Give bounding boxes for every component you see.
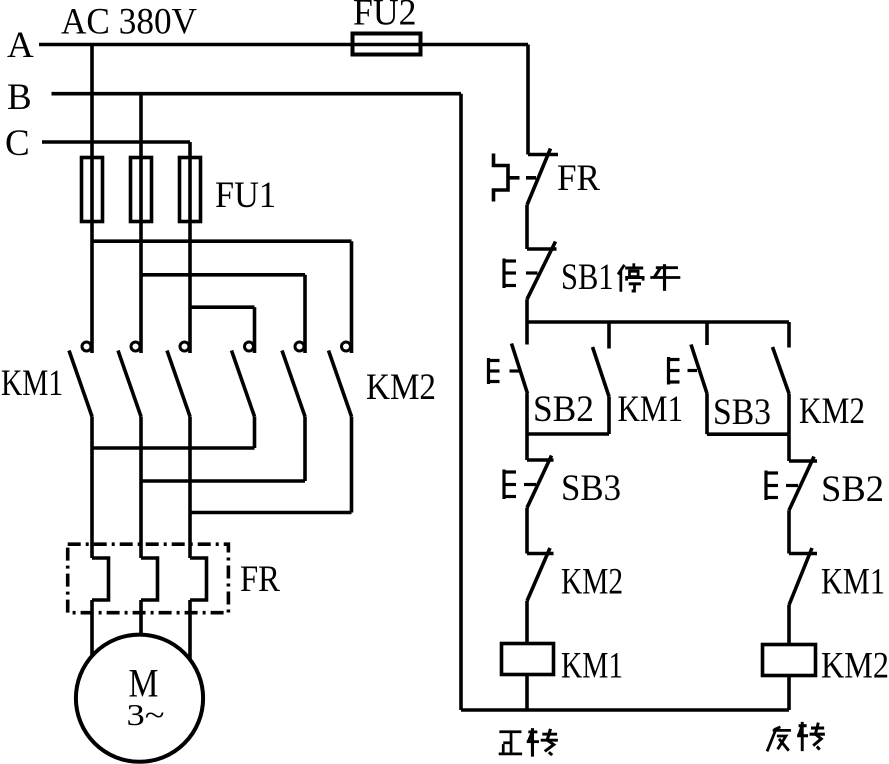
svg-text:A: A (7, 25, 34, 66)
wire: crossover bar C to KM2 left column (190, 305, 255, 309)
wire: below contact 2 (139, 417, 143, 559)
fuse FU1 element 1 (82, 158, 103, 222)
contactor KM1 main contact 1 (69, 342, 92, 417)
wire: control circuit left rail from phase B (459, 94, 463, 710)
svg-text:KM1: KM1 (618, 389, 684, 430)
contactor KM1 main contact 2 (118, 342, 141, 417)
pushbutton SB2 normally-closed contact (right branch) (789, 457, 817, 511)
pushbutton SB3 actuator E (669, 357, 698, 385)
thermal relay FR heater 1 (92, 558, 109, 600)
thermal relay FR heater 2 (141, 558, 158, 600)
pushbutton SB1 actuator E (504, 259, 538, 289)
wire: SB3 to KM2 interlock (525, 508, 529, 554)
svg-text:KM1: KM1 (821, 562, 885, 603)
svg-text:FR: FR (557, 158, 600, 199)
wire: below contact 5 (303, 417, 307, 482)
svg-text:KM1: KM1 (561, 646, 623, 687)
wire: lower crossover bar phase A (92, 446, 255, 450)
wire: heater 1 to motor (90, 600, 94, 656)
svg-text:SB3: SB3 (561, 468, 621, 509)
svg-text:KM2: KM2 (821, 646, 889, 687)
svg-text:FR: FR (240, 559, 280, 600)
svg-text:C: C (5, 123, 30, 164)
wire: KM2 interlock to KM1 coil (525, 601, 529, 644)
contact KM2 auxiliary NO (self-hold) (773, 322, 790, 434)
thermal relay FR heater 3 (190, 558, 207, 600)
contactor KM2 main contact 6 (329, 342, 352, 417)
fuse FU1 element 2 (131, 158, 152, 222)
wire: control rail (527, 320, 789, 324)
svg-text:SB1: SB1 (561, 257, 614, 298)
thermal relay FR actuator symbol (494, 154, 537, 202)
svg-text:KM1: KM1 (1, 363, 63, 404)
wire: KM1 coil to bottom (525, 675, 529, 711)
wire: phase B horizontal bus (52, 92, 462, 96)
wire: below contact 3 (188, 417, 192, 559)
wire: KM2 coil to bottom (787, 676, 791, 711)
thermal relay FR box (68, 544, 229, 613)
wire: phase C horizontal bus (42, 140, 190, 144)
wire: right branch down (787, 434, 791, 461)
svg-text:KM2: KM2 (799, 391, 865, 432)
fuse FU2 (353, 34, 421, 55)
label 车 (che, vehicle) (650, 264, 680, 291)
wire: SB2/KM1 parallel bottom bar (527, 432, 609, 436)
pushbutton SB1 normally-closed contact (527, 242, 557, 300)
wire: phase B vertical drop (139, 94, 143, 353)
coil KM2 (763, 645, 816, 676)
wire: below contact 1 (90, 417, 94, 559)
pushbutton SB2 normally-open contact (512, 322, 528, 434)
contact KM1 auxiliary NO (self-hold) (593, 322, 610, 434)
pushbutton SB3 normally-open contact (691, 322, 707, 434)
wire: vertical to contact c6 (350, 241, 354, 353)
wire: vertical to contact c4 (253, 307, 257, 353)
label 正 (zheng, forward) (499, 732, 522, 754)
contact KM2 interlock NC (left branch) (527, 548, 554, 601)
contact KM1 interlock NC (right branch) (789, 548, 817, 605)
wire: below contact 4 (253, 417, 257, 449)
wire: KM1 interlock to KM2 coil (787, 605, 791, 645)
pushbutton SB2 actuator E (489, 358, 520, 384)
wire: lower crossover bar phase B (141, 479, 305, 483)
wire: phase A vertical drop (90, 45, 94, 354)
svg-text:KM2: KM2 (561, 562, 623, 603)
svg-text:SB3: SB3 (713, 392, 771, 433)
wire: SB1 to rail (525, 299, 529, 322)
label 反 (fan, reverse) (767, 727, 791, 752)
wire: heater 3 to motor (188, 600, 192, 660)
label 转 (zhuan, rotate) (reverse) (797, 722, 825, 751)
pushbutton SB3 actuator E (left branch) (504, 470, 536, 500)
fuse FU1 element 3 (180, 158, 201, 222)
svg-text:FU1: FU1 (215, 175, 276, 216)
coil KM1 (502, 644, 554, 675)
wire: vertical to contact c5 (303, 275, 307, 353)
wire: control circuit right feeder from phase A (526, 45, 530, 155)
label 停 (ting, stop) (618, 263, 643, 291)
svg-text:FU2: FU2 (353, 0, 417, 34)
wire: crossover bar B to KM2 middle column (141, 273, 305, 277)
wire: phase C vertical drop (188, 142, 192, 353)
svg-text:3~: 3~ (127, 697, 165, 732)
pushbutton SB2 actuator E (right branch) (766, 471, 798, 501)
wire: control circuit bottom return (461, 708, 789, 712)
wire: SB2 to KM1 interlock (787, 510, 791, 553)
wire: phase A horizontal bus (39, 43, 528, 47)
label 转 (zhuan, rotate) (forward) (527, 728, 558, 757)
svg-text:AC 380V: AC 380V (61, 2, 197, 43)
contact FR normally-closed (control) (527, 149, 558, 206)
svg-text:KM2: KM2 (366, 367, 436, 408)
wire: FR to SB1 (525, 205, 529, 249)
wire: SB3/KM2 parallel bottom bar (707, 432, 789, 436)
wire: below contact 6 (350, 417, 354, 513)
motor M circle (76, 635, 203, 762)
wire: crossover bar A to KM2 right column (92, 239, 352, 243)
svg-text:B: B (7, 77, 32, 118)
svg-text:SB2: SB2 (821, 469, 884, 510)
wire: lower crossover bar phase C (190, 511, 352, 515)
wire: heater 2 to motor (139, 600, 143, 635)
pushbutton SB3 normally-closed contact (left branch) (527, 456, 554, 508)
svg-text:SB2: SB2 (533, 389, 594, 430)
contactor KM1 main contact 3 (167, 342, 190, 417)
contactor KM2 main contact 5 (282, 342, 305, 417)
contactor KM2 main contact 4 (232, 342, 255, 417)
wire: left branch down (525, 434, 529, 460)
